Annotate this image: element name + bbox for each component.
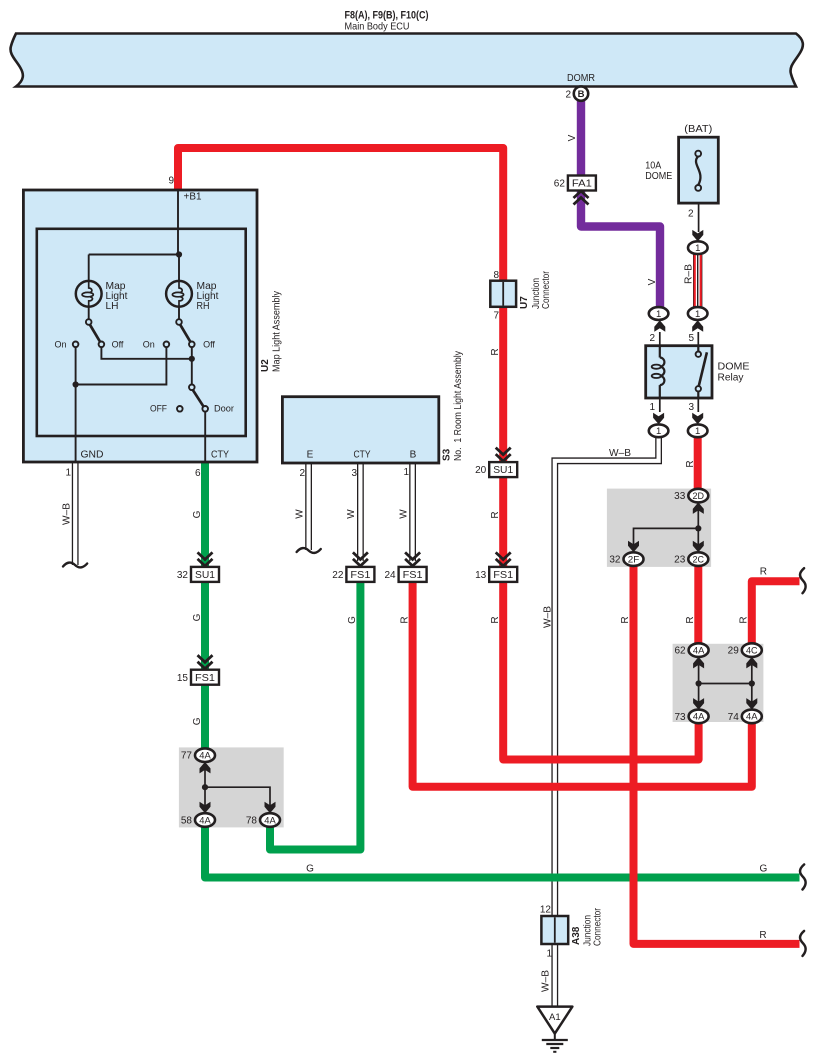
thin stub relay pin1 <box>659 398 661 412</box>
chevron above 20 SU1 <box>496 448 511 462</box>
svg-text:1: 1 <box>65 468 71 479</box>
svg-text:E: E <box>307 450 314 461</box>
svg-text:4A: 4A <box>264 815 276 826</box>
wire LH Off to bus <box>101 347 191 359</box>
svg-text:B: B <box>410 450 417 461</box>
svg-text:G: G <box>760 864 768 875</box>
map light LH bulb <box>76 281 102 307</box>
svg-text:DOMR: DOMR <box>567 73 595 84</box>
svg-text:4A: 4A <box>693 712 705 723</box>
wire G from 58 4A down and right to pigtail <box>205 826 800 878</box>
svg-text:W: W <box>398 509 409 519</box>
svg-text:62: 62 <box>674 646 686 657</box>
svg-text:R: R <box>399 616 410 623</box>
connector 78 4A <box>260 813 280 827</box>
junction 20 SU1 <box>489 462 517 477</box>
svg-text:2: 2 <box>299 468 305 479</box>
svg-text:R: R <box>490 511 501 518</box>
svg-text:DOME: DOME <box>718 362 750 373</box>
arrow up into 29 4C <box>746 657 757 669</box>
svg-text:GND: GND <box>81 450 104 461</box>
svg-text:G: G <box>192 717 203 725</box>
wire W from S3 pin CTY <box>357 463 364 561</box>
svg-text:4A: 4A <box>199 751 211 762</box>
connector 73 4A <box>689 710 709 724</box>
svg-text:On: On <box>54 340 66 350</box>
LH switch Off terminal <box>99 342 105 348</box>
svg-text:1: 1 <box>403 467 409 478</box>
svg-text:W–B: W–B <box>62 503 73 525</box>
svg-text:32: 32 <box>609 555 621 566</box>
lamp feed RH <box>178 255 180 282</box>
connector 1 below fuse <box>688 241 708 254</box>
svg-text:Connector: Connector <box>541 270 552 309</box>
connector 1 purple-side <box>649 307 669 320</box>
svg-text:78: 78 <box>246 815 258 826</box>
svg-text:LH: LH <box>106 301 119 312</box>
LH switch pivot terminal <box>86 319 92 325</box>
wire RH Off to door switch <box>191 347 193 385</box>
wire R from 23 2C down to 62 4A <box>694 564 702 645</box>
svg-text:1: 1 <box>695 426 700 437</box>
wire LH On to GND pin <box>75 347 77 462</box>
svg-text:SU1: SU1 <box>493 464 513 476</box>
svg-text:2F: 2F <box>628 554 640 565</box>
junction connector A38 box <box>541 916 568 944</box>
svg-text:A38: A38 <box>571 926 582 945</box>
door switch pivot terminal <box>189 385 195 391</box>
svg-text:29: 29 <box>728 646 740 657</box>
svg-text:V: V <box>567 134 578 141</box>
svg-text:9: 9 <box>168 176 174 187</box>
svg-text:Relay: Relay <box>718 373 744 384</box>
junction block gray right lower <box>673 644 764 722</box>
RH switch On terminal <box>164 342 170 348</box>
svg-text:22: 22 <box>332 570 344 581</box>
arrow up into connector above relay pin2 <box>654 320 665 332</box>
arrow up into 77 4A <box>200 762 211 774</box>
wire from +B1 to lamps <box>177 190 179 255</box>
wire RH On joins GND wire <box>76 347 167 385</box>
svg-text:15: 15 <box>177 673 189 684</box>
RH switch pivot terminal <box>176 319 182 325</box>
svg-text:W–B: W–B <box>543 606 554 628</box>
svg-text:2D: 2D <box>693 491 705 502</box>
svg-text:1: 1 <box>546 949 552 960</box>
junction 15 FS1 <box>191 670 219 685</box>
svg-text:OFF: OFF <box>150 404 167 414</box>
junction block right upper internals <box>697 503 699 547</box>
arrow up into connector above relay pin5 <box>692 320 703 332</box>
svg-text:74: 74 <box>728 712 740 723</box>
wire W from S3 pin B <box>409 463 416 561</box>
svg-text:FS1: FS1 <box>195 672 215 684</box>
svg-text:1: 1 <box>656 309 661 320</box>
connector 23 2C <box>688 552 708 566</box>
chevron above 13 FS1 <box>496 552 511 566</box>
connector 2 B on ECU <box>574 86 588 100</box>
arrow up into 2D <box>693 502 704 514</box>
svg-text:4A: 4A <box>199 815 211 826</box>
svg-text:13: 13 <box>475 570 487 581</box>
svg-text:R: R <box>760 567 767 578</box>
svg-text:R: R <box>685 616 696 623</box>
arrow up into 62 4A <box>693 657 704 669</box>
fuse 10A DOME box <box>679 137 719 203</box>
wire W pigtail from U2 pin1 GND <box>72 462 79 565</box>
wire R from U2 pin9 over to U7 down through 20 SU1 13 FS1 to 73 4A <box>178 148 699 760</box>
svg-text:2: 2 <box>565 90 571 101</box>
arrow down into 73 4A <box>693 698 704 710</box>
svg-text:W–B: W–B <box>609 448 631 459</box>
chevron above 32 SU1 <box>198 552 213 566</box>
wire G pigtail right end <box>800 865 806 890</box>
svg-text:1: 1 <box>695 243 700 254</box>
wire R-B striped from fuse to dome relay pin5 <box>693 253 702 308</box>
RH switch blade <box>180 324 191 342</box>
LH switch blade <box>90 324 101 342</box>
svg-text:G: G <box>192 510 203 518</box>
dome relay switch <box>697 346 699 351</box>
ground symbol A1 <box>537 1007 572 1034</box>
wire R from 29 4C up right to pigtail <box>752 581 800 646</box>
svg-text:33: 33 <box>674 491 686 502</box>
wire R pigtail lower right end <box>800 931 806 956</box>
svg-text:R: R <box>490 616 501 623</box>
svg-text:G: G <box>347 616 358 624</box>
svg-text:(BAT): (BAT) <box>684 124 712 135</box>
svg-text:32: 32 <box>177 570 189 581</box>
connector 77 4A <box>195 748 215 762</box>
wire R from dome relay pin3 to 33 2D <box>694 436 702 491</box>
wire W-B from dome relay pin1 to A38 to ground <box>555 436 659 1007</box>
U2 inner box <box>37 229 246 436</box>
LH switch On terminal <box>73 342 79 348</box>
connector 1 red side below relay <box>688 424 708 437</box>
wire R from 32 2F down right to pigtail <box>634 564 800 944</box>
junction block left internals <box>204 762 206 806</box>
arrow down into 2F <box>628 541 639 553</box>
svg-text:73: 73 <box>674 712 686 723</box>
svg-text:7: 7 <box>493 311 499 322</box>
svg-text:2: 2 <box>688 209 694 220</box>
connector 32 2F <box>624 552 644 566</box>
svg-text:DOME: DOME <box>645 171 672 182</box>
junction block right lower internals <box>698 665 700 703</box>
connector 1 W-B side below relay <box>649 424 669 437</box>
arrow down into 78 4A <box>265 802 276 814</box>
svg-text:2: 2 <box>649 333 655 344</box>
svg-text:G: G <box>192 613 203 621</box>
svg-text:1: 1 <box>656 426 661 437</box>
arrow down into 74 4A <box>746 698 757 710</box>
svg-text:6: 6 <box>195 468 201 479</box>
svg-text:+B1: +B1 <box>184 192 202 203</box>
svg-text:58: 58 <box>181 815 193 826</box>
junction connector U7 box <box>490 281 516 307</box>
door switch OFF terminal <box>177 406 183 412</box>
thin stub relay pin3 <box>697 398 699 412</box>
junction 32 SU1 <box>191 567 219 582</box>
chevron above 22 FS1 <box>353 552 368 566</box>
thin wire fuse output to connector <box>698 203 700 232</box>
connector 62 4A <box>689 643 709 657</box>
svg-text:1: 1 <box>695 309 700 320</box>
svg-text:R: R <box>490 348 501 355</box>
door switch blade <box>193 390 204 407</box>
thin stub relay pin5 <box>697 332 699 346</box>
connector 29 4C <box>742 643 762 657</box>
arrow down into 58 4A <box>200 802 211 814</box>
junction 24 FS1 <box>399 567 427 582</box>
fuse element <box>696 156 700 185</box>
RH lamp to switch pivot <box>178 307 180 320</box>
svg-text:V: V <box>647 278 658 285</box>
wire R from 24 FS1 to 74 4A <box>413 575 752 787</box>
svg-text:FS1: FS1 <box>350 569 370 581</box>
svg-text:12: 12 <box>540 905 552 916</box>
map light RH bulb <box>166 281 192 307</box>
svg-text:U7: U7 <box>519 296 530 309</box>
chevron above 24 FS1 <box>405 552 420 566</box>
svg-text:Connector: Connector <box>593 907 604 946</box>
chevron up below FA1 <box>574 191 589 205</box>
svg-text:3: 3 <box>351 468 357 479</box>
svg-text:24: 24 <box>384 570 396 581</box>
wire G from U2 pin6 CTY down through SU1 FS1 to 77 4A <box>201 462 209 749</box>
junction block gray right upper <box>607 489 711 567</box>
svg-text:4A: 4A <box>746 712 758 723</box>
svg-text:62: 62 <box>554 179 566 190</box>
Main Body ECU band <box>11 34 803 87</box>
wire V purple from ECU DOMR to dome relay pin2 <box>581 100 660 308</box>
svg-text:23: 23 <box>674 555 686 566</box>
svg-text:1: 1 <box>649 402 655 413</box>
wire R pigtail upper right end <box>800 568 806 593</box>
junction 13 FS1 <box>489 567 517 582</box>
junction block gray left <box>179 747 284 827</box>
svg-text:Main Body ECU: Main Body ECU <box>345 21 410 33</box>
svg-text:Off: Off <box>203 340 215 350</box>
svg-text:CTY: CTY <box>211 450 229 461</box>
map light assembly U2 outer box <box>23 190 257 462</box>
lamp feed LH <box>88 255 90 282</box>
svg-text:W: W <box>346 509 357 519</box>
svg-text:On: On <box>143 340 155 350</box>
wire G from 78 4A to 22 FS1 <box>270 575 360 850</box>
svg-text:4C: 4C <box>746 645 758 656</box>
svg-text:No. 1 Room Light Assembly: No. 1 Room Light Assembly <box>453 351 464 461</box>
connector 1 R-B side <box>688 307 708 320</box>
svg-text:5: 5 <box>688 333 694 344</box>
svg-text:3: 3 <box>688 402 694 413</box>
room light assembly S3 box <box>282 397 438 463</box>
junction 22 FS1 <box>346 567 374 582</box>
svg-text:R–B: R–B <box>684 264 695 284</box>
svg-text:4A: 4A <box>693 645 705 656</box>
svg-text:FS1: FS1 <box>493 569 513 581</box>
connector 33 2D <box>688 489 708 503</box>
svg-text:Door: Door <box>214 404 234 414</box>
svg-text:G: G <box>306 864 314 875</box>
arrow down into 2C <box>693 541 704 553</box>
svg-text:W: W <box>294 509 305 519</box>
arrow into fuse-side connector <box>692 230 703 242</box>
svg-text:20: 20 <box>475 465 487 476</box>
svg-text:A1: A1 <box>549 1012 561 1023</box>
arrow down into connector below relay pin3 <box>692 413 703 425</box>
svg-text:FA1: FA1 <box>572 178 592 190</box>
dome relay coil <box>659 346 661 358</box>
LH lamp to switch pivot <box>88 307 90 320</box>
svg-text:R: R <box>685 460 696 467</box>
svg-text:B: B <box>578 89 585 100</box>
wire Door terminal to CTY pin <box>204 411 206 462</box>
junction FA1 62 <box>568 176 596 191</box>
svg-text:U2: U2 <box>260 359 271 372</box>
svg-text:R: R <box>759 930 766 941</box>
door switch Door terminal <box>202 406 208 412</box>
svg-text:W–B: W–B <box>541 970 552 992</box>
svg-text:S3: S3 <box>442 448 453 461</box>
RH switch Off terminal <box>189 342 195 348</box>
connector 74 4A <box>742 710 762 724</box>
wire W from S3 pin E with pigtail <box>305 463 312 550</box>
svg-text:RH: RH <box>197 301 210 312</box>
svg-text:R: R <box>739 616 750 623</box>
svg-text:2C: 2C <box>693 554 705 565</box>
svg-text:FS1: FS1 <box>403 569 423 581</box>
thin stub relay pin2 <box>659 332 661 346</box>
svg-text:R: R <box>620 616 631 623</box>
dome relay box <box>646 346 712 398</box>
svg-text:CTY: CTY <box>354 450 371 461</box>
svg-text:SU1: SU1 <box>195 569 215 581</box>
chevron above 15 FS1 <box>198 655 213 669</box>
svg-text:10A: 10A <box>645 161 661 172</box>
svg-text:Map Light Assembly: Map Light Assembly <box>272 291 283 372</box>
svg-text:77: 77 <box>181 751 193 762</box>
svg-text:8: 8 <box>493 270 499 281</box>
svg-text:Off: Off <box>112 340 124 350</box>
connector 58 4A <box>195 813 215 827</box>
arrow down into connector below relay pin1 <box>653 413 664 425</box>
